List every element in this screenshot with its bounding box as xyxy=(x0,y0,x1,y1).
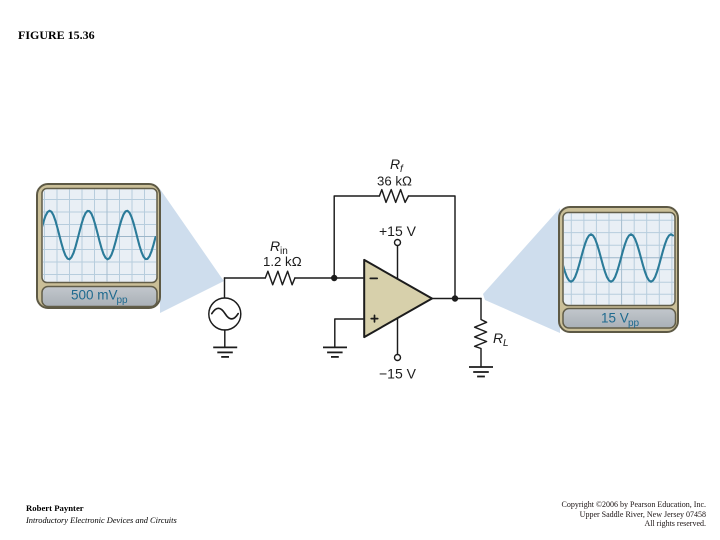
ground (load) xyxy=(469,367,493,377)
value label 1.2 kOhm xyxy=(263,254,302,269)
source VS (sine-wave generator) xyxy=(209,278,241,347)
ground (non-inverting input) xyxy=(323,319,363,357)
output oscilloscope screen xyxy=(563,212,675,306)
svg-text:36 kΩ: 36 kΩ xyxy=(377,174,412,189)
label RL xyxy=(493,330,509,349)
wire input (source to Rin to inverting input) xyxy=(225,277,364,279)
resistor Rin xyxy=(265,271,295,285)
power +15 V xyxy=(379,223,417,285)
output oscilloscope trace (15 Vpp sine) xyxy=(563,234,673,281)
wire feedback (node A up and across to Rf, Rf to output vertical) xyxy=(334,196,455,299)
ground (source) xyxy=(213,347,237,357)
node B (output junction) xyxy=(452,295,458,301)
svg-text:L: L xyxy=(503,338,509,349)
node A (inverting input junction) xyxy=(331,275,337,281)
input beam xyxy=(160,189,224,313)
input oscilloscope screen xyxy=(42,188,157,283)
svg-text:−15 V: −15 V xyxy=(379,366,417,382)
svg-text:1.2 kΩ: 1.2 kΩ xyxy=(263,254,302,269)
svg-text:500 mV: 500 mV xyxy=(71,288,118,303)
value label 36 kOhm xyxy=(377,174,412,189)
svg-text:R: R xyxy=(270,238,280,254)
power -15 V xyxy=(379,312,417,382)
label Rf xyxy=(390,156,404,175)
wire output (op-amp to node B to RL corner) xyxy=(432,298,481,300)
op-amp U1 xyxy=(364,260,432,337)
output oscilloscope readout 15 Vpp xyxy=(563,309,676,330)
svg-text:+15 V: +15 V xyxy=(379,223,417,239)
svg-text:pp: pp xyxy=(117,295,129,306)
svg-text:R: R xyxy=(390,156,400,172)
svg-text:pp: pp xyxy=(628,318,640,329)
svg-text:15 V: 15 V xyxy=(601,311,629,326)
output oscilloscope bezel xyxy=(559,207,678,332)
input oscilloscope trace (500 mVpp sine) xyxy=(42,211,156,260)
resistor RL xyxy=(475,299,487,368)
output beam xyxy=(483,208,560,333)
resistor Rf xyxy=(379,190,408,203)
svg-text:R: R xyxy=(493,330,503,346)
input oscilloscope bezel xyxy=(37,184,160,308)
label Rin xyxy=(270,238,288,257)
input oscilloscope readout 500 mVpp xyxy=(42,287,157,307)
